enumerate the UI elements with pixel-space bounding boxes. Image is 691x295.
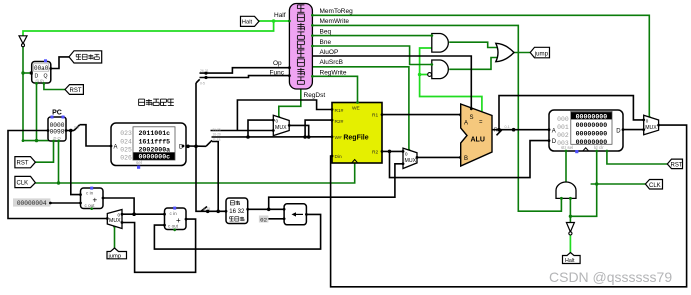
svg-text:1611fff5: 1611fff5 xyxy=(138,138,170,145)
svg-text:0-9: 0-9 xyxy=(74,126,79,130)
wire CLK right segment to RAM ld xyxy=(591,183,646,185)
wire rt to R2# xyxy=(305,120,332,137)
wire Halt branch down-left to NOT1 xyxy=(23,21,274,36)
tunnel 总周期数 xyxy=(69,51,102,63)
wire RegWrite to RegFile WE xyxy=(312,76,357,102)
svg-text:sel: sel xyxy=(136,160,142,165)
svg-text:MUX: MUX xyxy=(645,125,657,131)
svg-text:CLK: CLK xyxy=(649,183,661,189)
svg-text:CLK: CLK xyxy=(17,181,29,187)
wire AluSrcB to MUX2 select xyxy=(312,67,409,151)
wire RegFile R2 to MUX2 i0 xyxy=(382,150,403,152)
wire PC.Q out xyxy=(66,130,74,132)
gate AND3 (mem write strobe, north facing) xyxy=(556,182,576,198)
svg-text:023: 023 xyxy=(120,130,132,137)
wire PC+4 line to MUX1 i0 and adder2 A xyxy=(122,213,165,215)
tunnel CLK left xyxy=(15,176,36,187)
svg-text:00000000: 00000000 xyxy=(576,122,608,129)
svg-text:AluOP: AluOP xyxy=(320,49,339,56)
svg-text:R1: R1 xyxy=(372,113,378,119)
wire RegDst to MUXW select xyxy=(279,89,301,117)
svg-text:A: A xyxy=(464,121,468,127)
svg-text:0-1: 0-1 xyxy=(505,125,510,129)
svg-text:001: 001 xyxy=(557,124,569,131)
svg-text:Halt: Halt xyxy=(565,258,575,264)
wire const 4 to adder1 B xyxy=(50,202,80,204)
wire instruction up to op-func splitter xyxy=(195,83,197,146)
wire branch to counter enable xyxy=(23,72,32,74)
wire MemToReg to MUX3 select xyxy=(312,15,649,118)
svg-text:MUX: MUX xyxy=(405,158,417,164)
svg-text:025: 025 xyxy=(120,146,132,153)
wire memory AND output to RAM str xyxy=(565,151,567,183)
mux MUX1 (PC source, west facing) xyxy=(107,210,122,229)
mux MUXW (write register select) xyxy=(273,115,289,135)
svg-text:2011001c: 2011001c xyxy=(138,130,170,137)
wire NOT2 output to Halt tunnel xyxy=(569,235,571,252)
wire MUXW out to W# line xyxy=(289,125,309,137)
wire ROM D out xyxy=(186,145,206,147)
constant 00000004 xyxy=(13,198,50,207)
node xyxy=(21,71,24,74)
tunnel jump (bottom) xyxy=(107,248,127,259)
splitter on result xyxy=(497,130,503,136)
svg-text:Half: Half xyxy=(274,12,286,19)
wire Bne to AND2 xyxy=(312,46,431,65)
node xyxy=(569,215,572,218)
wire RST left tunnel to PC reset xyxy=(35,141,53,162)
svg-text:jump: jump xyxy=(534,50,549,57)
node xyxy=(35,139,38,142)
node PC+4 xyxy=(132,212,136,216)
svg-text:16-20: 16-20 xyxy=(213,133,221,137)
svg-text:Din: Din xyxy=(335,154,343,160)
wire adder1 out down xyxy=(103,198,134,214)
wire Halt input to controller xyxy=(259,20,290,22)
svg-text:Halt: Halt xyxy=(242,20,253,26)
svg-text:Func: Func xyxy=(270,70,285,77)
svg-text:B: B xyxy=(464,156,468,162)
svg-text:RegFile: RegFile xyxy=(343,135,368,142)
tunnel RST left xyxy=(15,157,36,168)
wire node to CLK segment xyxy=(570,151,596,216)
node xyxy=(267,208,271,212)
wire rd field to MUXW i1 xyxy=(211,130,274,132)
counter cycle-counter xyxy=(32,59,51,85)
node counter D input xyxy=(30,72,33,75)
svg-text:MemWrite: MemWrite xyxy=(320,18,350,25)
svg-text:0-15: 0-15 xyxy=(203,207,210,211)
shifter shift-left-2 xyxy=(284,204,306,225)
svg-text:16 32: 16 32 xyxy=(229,209,245,215)
wire RAM D out to MUX3 i1 xyxy=(623,129,644,131)
wire MUX1 select to jump tunnel xyxy=(114,226,116,249)
svg-text:MUX: MUX xyxy=(109,218,121,224)
svg-text:str sel: str sel xyxy=(561,145,573,150)
inverter NOT2 (south facing) xyxy=(566,223,574,235)
svg-text:21-25: 21-25 xyxy=(213,128,221,132)
svg-text:WE: WE xyxy=(352,106,360,112)
wire immediate up to MUX2 i1 xyxy=(269,164,403,210)
wire MUX3 out big loop to RegFile Din xyxy=(331,125,687,287)
wire ALU result bypass above RAM to MUX3 i0 xyxy=(499,96,644,130)
svg-text:c out: c out xyxy=(85,203,96,208)
wire AND right input down to node xyxy=(569,198,571,222)
wire AND1 output to OR xyxy=(449,42,497,47)
svg-text:000: 000 xyxy=(557,116,569,123)
wire PC clock branch xyxy=(58,141,60,183)
wire CLK line to RegFile clock xyxy=(35,164,354,184)
svg-text:A: A xyxy=(114,145,118,151)
extender 16to32 xyxy=(226,198,248,224)
svg-text:00a0: 00a0 xyxy=(34,65,49,72)
pin dots xyxy=(331,108,334,111)
wire splitter to ROM A xyxy=(80,125,112,146)
splitter rfields xyxy=(206,140,212,146)
node Halt junction xyxy=(272,19,276,23)
wire counter clear to RST tunnel xyxy=(44,83,65,89)
wire Zero to AND2 bubble xyxy=(420,74,428,76)
svg-text:R: R xyxy=(494,128,498,134)
node zero pin xyxy=(480,113,483,116)
svg-text:024: 024 xyxy=(120,138,132,145)
svg-text:ALU: ALU xyxy=(471,137,485,144)
node xyxy=(307,135,311,139)
svg-text:0000000c: 0000000c xyxy=(138,154,170,161)
wire shifter out to adder2 B xyxy=(154,214,320,249)
ram data memory xyxy=(549,110,623,153)
wire const 02 to shifter xyxy=(268,218,285,220)
wire immediate field down to extender line xyxy=(212,142,218,212)
label instruction memory xyxy=(139,99,174,105)
wire RST right tunnel to RAM clr xyxy=(607,151,667,164)
wire adder2 out to MUX1 i1 xyxy=(122,219,196,272)
inverter NOT1 xyxy=(19,36,27,47)
tunnel RST a xyxy=(65,85,83,95)
node xyxy=(216,210,220,214)
svg-text:R2#: R2# xyxy=(335,119,344,125)
svg-text:026: 026 xyxy=(120,155,132,162)
wire R2 down around to RAM D in xyxy=(390,141,550,178)
node xyxy=(512,128,516,132)
node Zero junction xyxy=(418,73,422,77)
splitter op-func xyxy=(196,79,200,83)
mux MUX3 (writeback select) xyxy=(644,115,659,135)
node xyxy=(388,150,392,154)
svg-text:Op: Op xyxy=(273,60,282,67)
node xyxy=(595,182,598,185)
svg-text:Q: Q xyxy=(44,74,48,80)
wire Beq to AND1 xyxy=(312,35,431,37)
wire counter Q to tunnel xyxy=(51,57,69,69)
svg-text:Bne: Bne xyxy=(320,39,332,46)
gate OR (jump) xyxy=(496,43,514,61)
svg-text:D: D xyxy=(552,139,557,145)
node ALU A pin xyxy=(459,113,463,117)
wire Func field to controller xyxy=(200,76,290,78)
wire NOT1 output down to PC enable line xyxy=(23,46,51,141)
wire Zero: ALU "=" up and left to branch gates xyxy=(420,48,482,115)
svg-text:RST: RST xyxy=(671,163,683,169)
gate AND2 (bne) with bubble xyxy=(428,60,449,79)
svg-text:RST: RST xyxy=(70,88,82,94)
node xyxy=(194,145,198,149)
wire ALU R to RAM A xyxy=(492,129,549,131)
svg-text:002: 002 xyxy=(557,132,569,139)
svg-text:CSDN @qssssss79: CSDN @qssssss79 xyxy=(549,269,672,285)
node xyxy=(186,145,190,149)
svg-text:=: = xyxy=(479,120,483,126)
wire PC.Q down to adder1 A xyxy=(71,131,81,195)
svg-text:11-15: 11-15 xyxy=(213,138,221,142)
tunnel Halt top xyxy=(241,16,260,26)
wire MemWrite down to memory AND gate xyxy=(312,25,561,211)
wire instr down to immediate splitter xyxy=(196,146,226,211)
node xyxy=(206,210,210,214)
svg-text:W#: W# xyxy=(335,135,343,141)
svg-text:A: A xyxy=(552,129,556,135)
svg-text:0-5: 0-5 xyxy=(200,82,205,86)
node xyxy=(204,72,207,75)
wire rt up to MUXW i0 xyxy=(248,120,273,137)
svg-text:26-31: 26-31 xyxy=(200,69,209,73)
wire rt field long line to W# xyxy=(212,136,333,138)
svg-text:RegDst: RegDst xyxy=(304,92,326,99)
gate AND1 (beq) xyxy=(432,34,449,53)
svg-text:PC: PC xyxy=(52,110,62,117)
mux MUX2 (ALU B source) xyxy=(403,148,417,168)
tunnel jump right xyxy=(530,47,549,58)
svg-text:S: S xyxy=(470,115,474,121)
svg-text:00000004: 00000004 xyxy=(17,200,47,207)
tunnel RST right xyxy=(667,159,683,169)
node xyxy=(204,76,207,79)
wire counter clock down xyxy=(36,83,38,140)
node ALU B pin xyxy=(459,156,463,160)
svg-text:D Q: D Q xyxy=(53,136,60,141)
svg-text:00000000: 00000000 xyxy=(576,113,608,120)
adder ADD2 xyxy=(165,207,187,232)
node AND3 input pins xyxy=(560,197,563,200)
svg-text:MUX: MUX xyxy=(275,125,287,131)
wire rs field up and to R1# xyxy=(237,100,332,131)
svg-text:AluSrcB: AluSrcB xyxy=(320,59,343,66)
node xyxy=(57,181,60,184)
svg-text:MemToReg: MemToReg xyxy=(320,8,354,15)
wire OR output to jump tunnel xyxy=(514,52,530,54)
node xyxy=(497,128,501,132)
register PC xyxy=(48,110,66,142)
wire MUX1 output to PC.D big left loop xyxy=(8,131,107,219)
splitter immediate xyxy=(201,207,207,212)
svg-text:RegWrite: RegWrite xyxy=(320,69,347,76)
svg-text:c out: c out xyxy=(168,224,179,229)
wire extender out to shifter xyxy=(248,208,284,210)
splitter PC address xyxy=(74,125,80,131)
svg-text:02: 02 xyxy=(260,216,267,223)
wire MUX2 out to ALU B xyxy=(417,156,461,158)
node xyxy=(303,135,307,139)
tunnel Halt bottom xyxy=(563,253,581,264)
svg-text:R1#: R1# xyxy=(335,108,344,114)
controller single-cycle hardwired control unit xyxy=(289,4,312,90)
constant 02 xyxy=(259,216,269,224)
svg-text:R2: R2 xyxy=(372,150,378,156)
node xyxy=(246,135,250,139)
node PC.Q xyxy=(69,129,73,133)
rom instruction memory xyxy=(111,123,186,169)
adder ADD1 xyxy=(81,187,104,210)
svg-text:ld clr: ld clr xyxy=(594,145,604,150)
svg-text:Beq: Beq xyxy=(320,28,332,35)
wire Op field to controller xyxy=(200,68,290,73)
svg-text:RST: RST xyxy=(17,161,29,167)
tunnel CLK right xyxy=(645,180,662,190)
wire AND2 output to OR xyxy=(449,58,497,70)
regfile xyxy=(332,103,382,164)
wire AluOP to ALU S xyxy=(312,56,471,109)
svg-text:00000000: 00000000 xyxy=(576,131,608,138)
wire RegFile R1 to ALU A xyxy=(382,114,462,116)
alu xyxy=(461,104,498,166)
svg-text:D: D xyxy=(616,129,621,135)
svg-text:jump: jump xyxy=(108,253,122,259)
